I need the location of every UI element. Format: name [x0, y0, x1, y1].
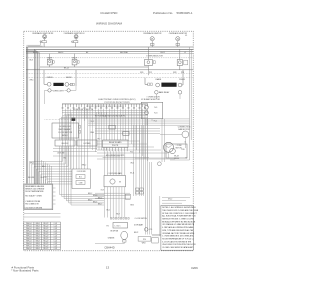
svg-text:WIRING DIAGRAM: WIRING DIAGRAM — [96, 22, 123, 26]
svg-text:NEUTRAL: NEUTRAL — [120, 51, 128, 54]
svg-text:BK-22: BK-22 — [134, 232, 138, 234]
svg-text:1 2 3 4 5: 1 2 3 4 5 — [115, 226, 121, 228]
svg-text:#SURFACE IGNITOR LF: #SURFACE IGNITOR LF — [64, 32, 86, 35]
svg-text:BK-15: BK-15 — [88, 199, 92, 201]
svg-text:SIZE, TYPE AND INSULATION AS T: SIZE, TYPE AND INSULATION AS THE — [162, 229, 194, 232]
svg-text:OR ORANGE GY GRAY BR BROWN: OR ORANGE GY GRAY BR BROWN TN — [162, 223, 195, 226]
svg-text:MOTOR: MOTOR — [176, 147, 183, 149]
svg-text:P13: P13 — [181, 72, 184, 74]
svg-text:BK-13: BK-13 — [93, 195, 97, 197]
svg-text:1 2 3 4 5 6 7 8 9 10 11 12 13: 1 2 3 4 5 6 7 8 9 10 11 12 13 14 15 16 1… — [86, 106, 124, 108]
svg-text:P15: P15 — [130, 152, 133, 154]
svg-text:WH-7: WH-7 — [30, 163, 34, 165]
svg-text:OVEN LIGHT: OVEN LIGHT — [53, 90, 65, 92]
svg-text:N: N — [186, 158, 187, 160]
svg-text:ELECTRONIC OVEN CONTROL (EOC): ELECTRONIC OVEN CONTROL (EOC) — [99, 99, 136, 101]
svg-text:BK-5 WH: BK-5 WH — [28, 177, 34, 179]
svg-text:RELAY BOARD: RELAY BOARD — [109, 141, 122, 144]
svg-text:4. REPLACE ALL WIRING WITH SAM: 4. REPLACE ALL WIRING WITH SAME — [162, 226, 194, 229]
svg-text:Publication No.: Publication No. — [153, 11, 173, 15]
svg-text:# LOCK SWITCH: # LOCK SWITCH — [134, 218, 147, 220]
svg-text:BK-2: BK-2 — [107, 210, 111, 212]
svg-text:LT-1: LT-1 — [150, 229, 153, 231]
svg-text:59953025-1: 59953025-1 — [177, 11, 193, 15]
svg-text:# LOCK MOTOR: # LOCK MOTOR — [58, 132, 73, 134]
svg-text:L1-3: L1-3 — [54, 248, 57, 250]
svg-text:SERVICE THE UNIT. 3. WIRE COLO: SERVICE THE UNIT. 3. WIRE COLORS: — [162, 219, 194, 221]
svg-text:WH-10: WH-10 — [58, 52, 63, 54]
svg-text:P9 P10 RELAY BD K1 K3 K4 DLB: P9 P10 RELAY BD K1 K3 K4 DLB P2 — [95, 115, 125, 118]
svg-text:ALL ELECTRICAL POWER BEFORE YO: ALL ELECTRICAL POWER BEFORE YOU — [162, 215, 196, 218]
svg-text:BK WH GN: BK WH GN — [111, 230, 119, 232]
svg-text:DP8: DP8 — [173, 72, 176, 74]
svg-text:BK-17: BK-17 — [98, 204, 102, 206]
svg-text:WH-6: WH-6 — [30, 80, 34, 82]
svg-text:# BAKE: # BAKE — [155, 78, 162, 81]
svg-text:BAKE RELAY: BAKE RELAY — [159, 91, 170, 94]
svg-text:P12: P12 — [149, 72, 152, 74]
svg-text:DP1 DP2 DP3 DP4 DP5: DP1 DP2 DP3 DP4 DP5 — [106, 155, 124, 157]
svg-text:6. DOOR LATCH IS SHOWN IN THE: 6. DOOR LATCH IS SHOWN IN THE — [162, 240, 192, 243]
svg-text:ORIGINAL FACTORY INSTALLED WIR: ORIGINAL FACTORY INSTALLED WIRE. — [162, 232, 195, 235]
svg-text:BK-8: BK-8 — [30, 60, 34, 62]
svg-text:# SENSOR PROBE: # SENSOR PROBE — [25, 201, 41, 203]
svg-text:K4 N.C.: K4 N.C. — [62, 135, 69, 137]
svg-text:UNLOCKED POSITION WITH THE DOO: UNLOCKED POSITION WITH THE DOOR — [162, 244, 196, 246]
svg-text:DOOR LOCK: DOOR LOCK — [59, 126, 71, 128]
svg-text:#SURFACE IGNITOR: #SURFACE IGNITOR — [143, 32, 162, 35]
svg-text:# COOLING FAN: # COOLING FAN — [108, 172, 122, 175]
svg-text:BK-16: BK-16 — [93, 202, 97, 204]
svg-text:BK BLACK WH WHITE RD RED BL: BK BLACK WH WHITE RD RED BL BLUE — [162, 220, 196, 223]
svg-text:5. OVEN SENSOR IS 1091 OHMS AT: 5. OVEN SENSOR IS 1091 OHMS AT A — [162, 235, 194, 238]
svg-text:TN-4: TN-4 — [154, 121, 157, 123]
svg-text:RD-22: RD-22 — [43, 248, 48, 250]
svg-text:WH-3: WH-3 — [130, 205, 134, 207]
svg-text:LOCK SW: LOCK SW — [57, 152, 65, 154]
svg-text:BK-11: BK-11 — [130, 173, 134, 175]
svg-text:BK-4: BK-4 — [42, 166, 46, 168]
svg-text:* Non-Illustrated Parts: * Non-Illustrated Parts — [11, 269, 39, 273]
svg-text:#SURFACE IGNITOR: #SURFACE IGNITOR — [169, 32, 188, 35]
svg-text:RESISTANCE VALUES: RESISTANCE VALUES — [25, 185, 45, 188]
svg-text:ROOM TEMPERATURE OF 75 F (24 C: ROOM TEMPERATURE OF 75 F (24 C). — [162, 237, 194, 240]
svg-text:P20: P20 — [143, 239, 146, 241]
svg-text:LOCK SWITCH SHOWN: LOCK SWITCH SHOWN — [24, 208, 42, 210]
svg-text:# BROIL: # BROIL — [46, 77, 53, 79]
svg-text:2500W: 2500W — [179, 79, 185, 81]
svg-text:# CONV: # CONV — [176, 145, 183, 147]
svg-text:IN THE OFF CONDITION. 2. DISCO: IN THE OFF CONDITION. 2. DISCONNECT — [162, 213, 197, 215]
svg-text:L1: L1 — [185, 142, 187, 144]
svg-text:P11: P11 — [64, 158, 67, 160]
svg-text:FAN MOTOR: FAN MOTOR — [178, 128, 190, 131]
svg-text:OR-5: OR-5 — [130, 163, 134, 165]
svg-text:LOCKED: LOCKED — [84, 143, 92, 145]
svg-text:OR-12: OR-12 — [160, 52, 165, 54]
svg-text:3400W: 3400W — [66, 77, 72, 79]
svg-text:GY-9: GY-9 — [101, 190, 105, 192]
svg-text:N.O.: N.O. — [154, 113, 158, 115]
svg-text:CLOSED. SEE SERVICE DATA SHEET: CLOSED. SEE SERVICE DATA SHEET. — [162, 246, 194, 249]
svg-text:LATCH MOTOR: LATCH MOTOR — [146, 98, 160, 101]
svg-text:P30 CONNECTOR: P30 CONNECTOR — [25, 203, 39, 205]
svg-text:ROOM TEMPERATURE: ROOM TEMPERATURE — [25, 190, 44, 193]
svg-text:GY-12: GY-12 — [168, 199, 172, 201]
svg-text:P10: P10 — [98, 139, 101, 141]
svg-text:BK-14: BK-14 — [98, 197, 102, 199]
svg-text:WH-9: WH-9 — [142, 243, 146, 245]
svg-text:NOTES: 1. ALL WIRING IS SHOWN: NOTES: 1. ALL WIRING IS SHOWN WITH — [162, 206, 196, 209]
svg-text:CGLEF379D: CGLEF379D — [100, 11, 118, 15]
svg-text:WH-12: WH-12 — [82, 165, 87, 167]
svg-text:P10 P11: P10 P11 — [112, 145, 118, 147]
svg-text:N.C.: N.C. — [154, 107, 158, 109]
svg-text:UNLOCK: UNLOCK — [61, 143, 69, 145]
svg-text:WH-14: WH-14 — [26, 248, 31, 250]
svg-text:THE OVEN DOOR CLOSED AND THE O: THE OVEN DOOR CLOSED AND THE OVEN — [162, 209, 199, 212]
svg-text:YL-2: YL-2 — [91, 121, 94, 123]
svg-text:BK-8: BK-8 — [36, 248, 40, 250]
svg-text:BN-6: BN-6 — [91, 132, 95, 134]
svg-text:BK-18: BK-18 — [174, 156, 179, 158]
svg-text:RD-7: RD-7 — [117, 214, 121, 216]
svg-text:0206: 0206 — [191, 266, 198, 270]
svg-text:L2: L2 — [184, 52, 186, 54]
svg-text:# DOOR SW: # DOOR SW — [76, 171, 86, 173]
svg-text:P4: P4 — [107, 226, 109, 228]
svg-text:13: 13 — [106, 266, 110, 270]
svg-text:#SURFACE IGNITOR RF: #SURFACE IGNITOR RF — [32, 32, 54, 35]
svg-text:BK-12: BK-12 — [88, 193, 92, 195]
svg-text:SWITCH ASSY: SWITCH ASSY — [59, 128, 73, 131]
svg-text:BK-14: BK-14 — [64, 68, 69, 70]
svg-text:CBH44D: CBH44D — [104, 246, 114, 250]
svg-text:DP6: DP6 — [140, 72, 143, 74]
